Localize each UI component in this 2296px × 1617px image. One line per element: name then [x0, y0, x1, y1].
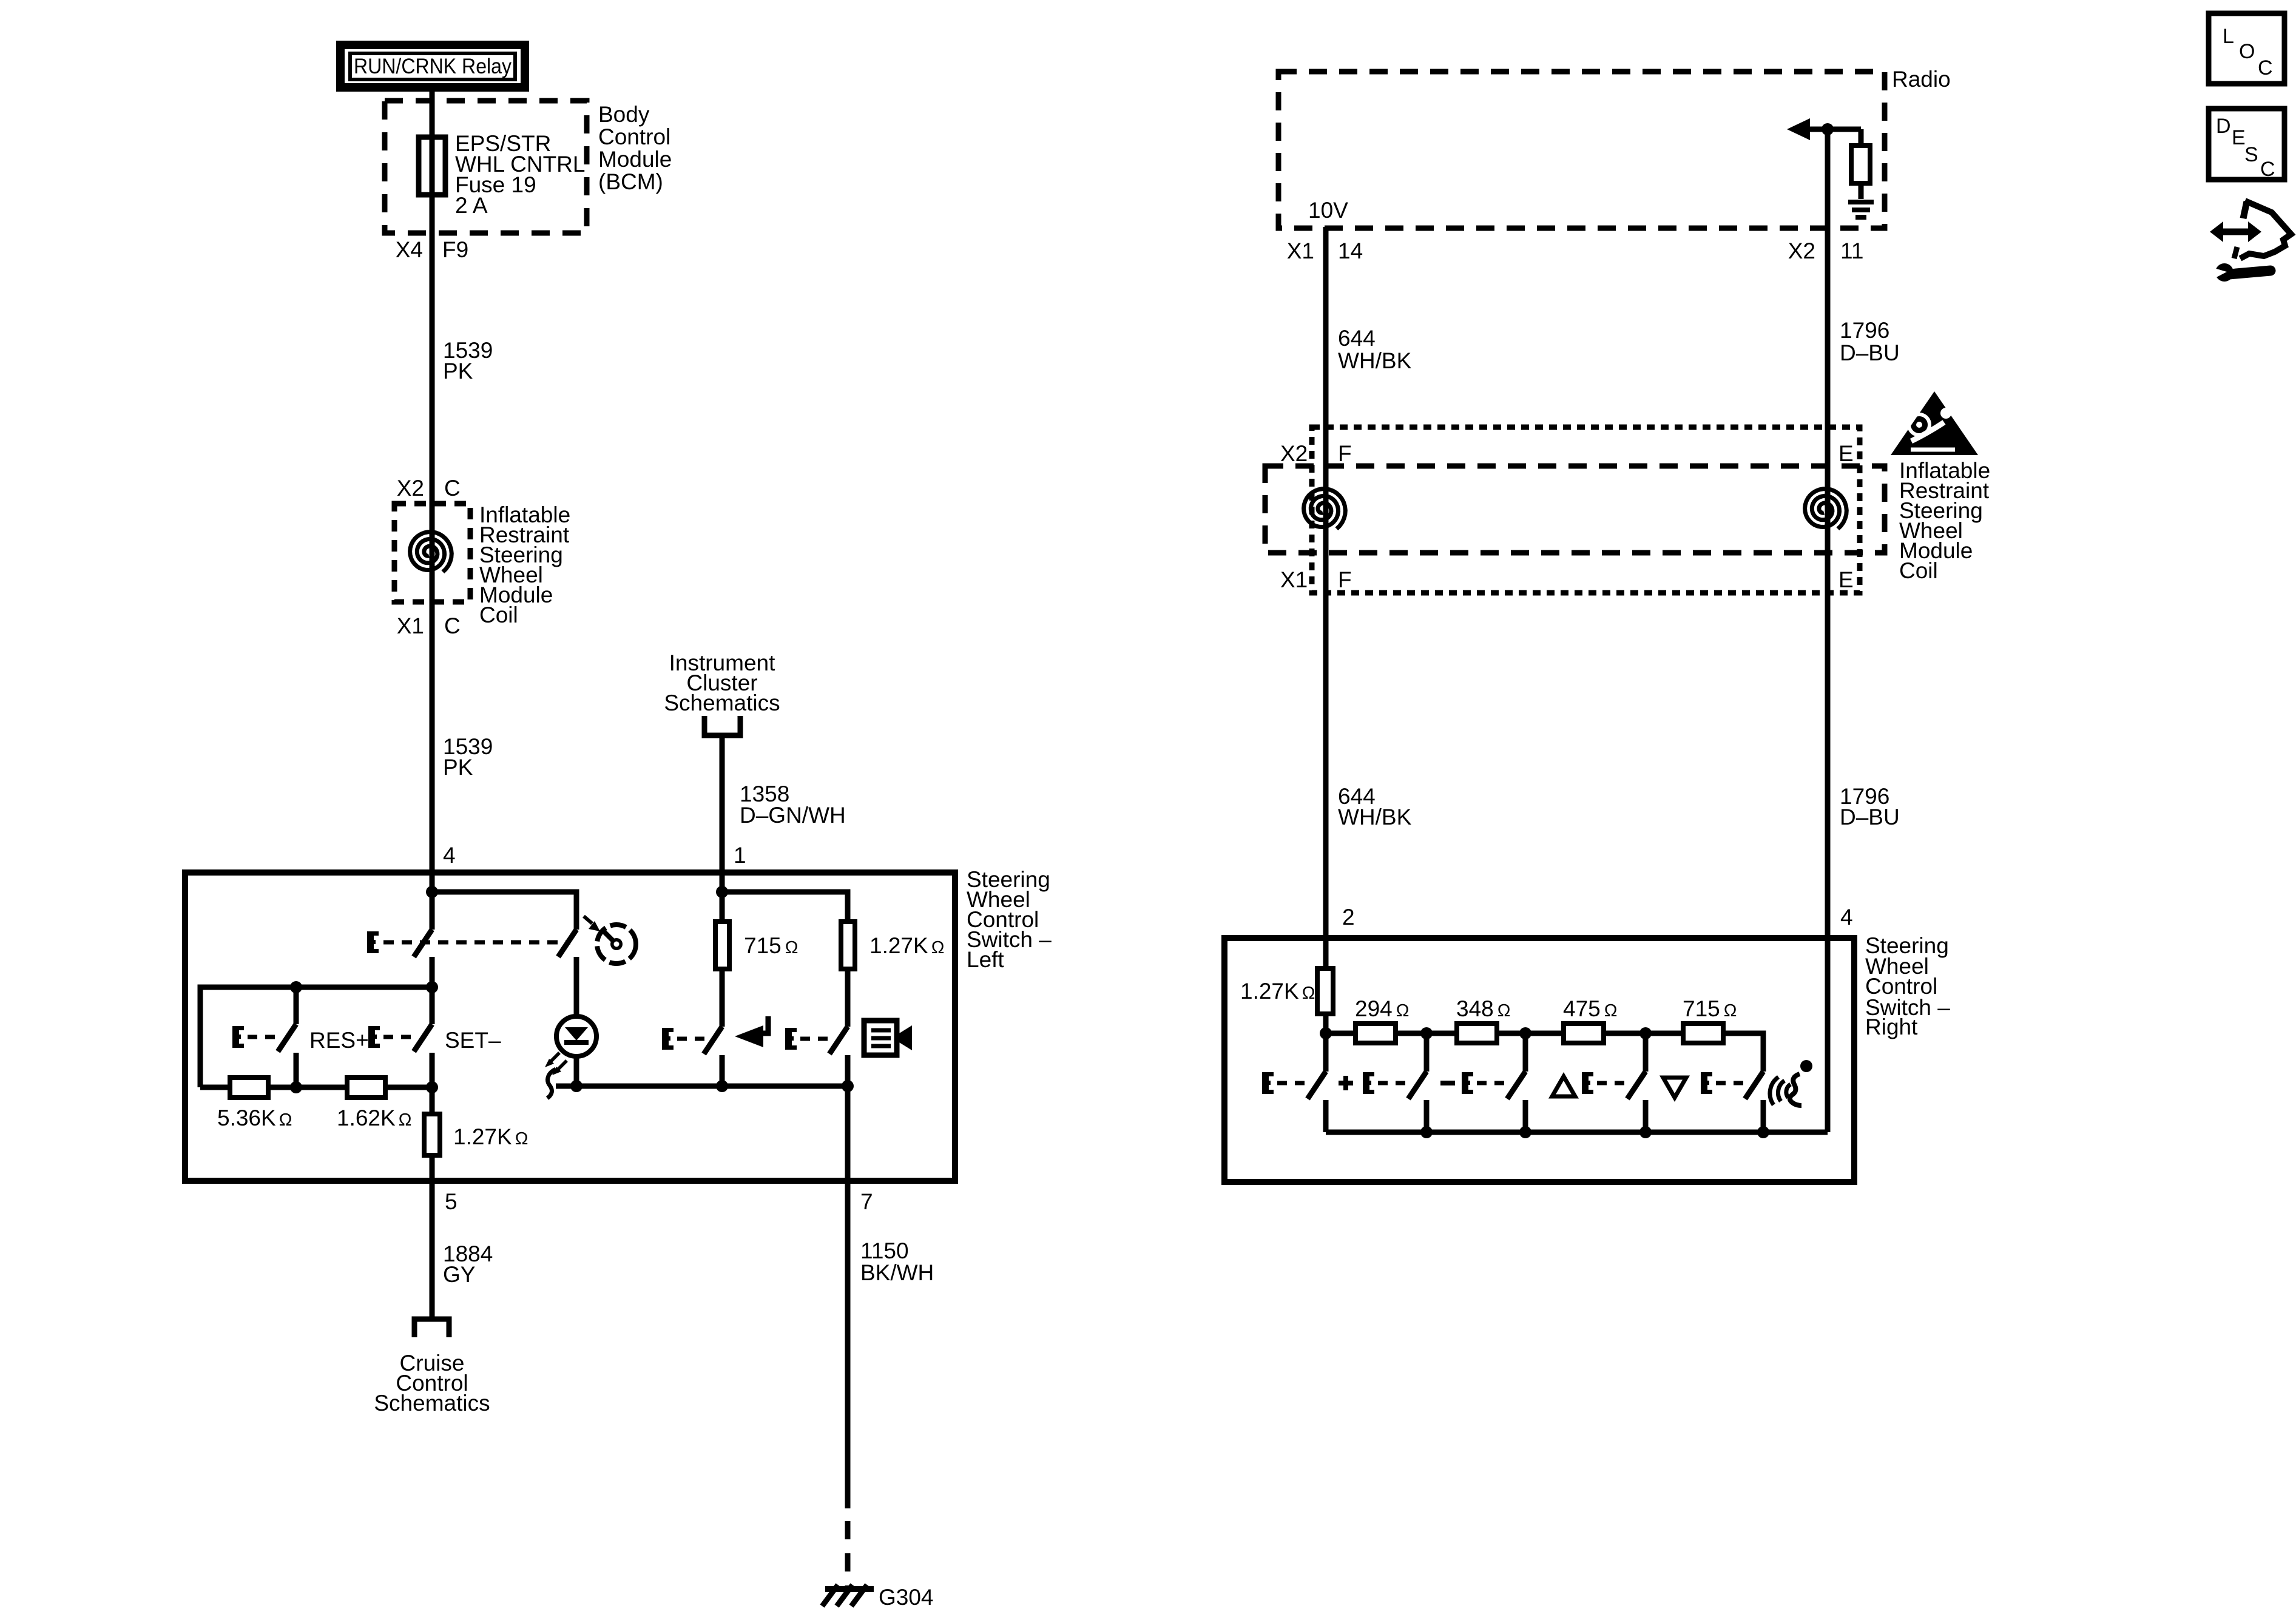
node set junction	[426, 1081, 438, 1093]
actuator E SET-	[368, 1026, 380, 1048]
switch cruise on/off blade 1	[414, 930, 432, 957]
symbol triangle up	[1552, 1076, 1575, 1096]
svg-text:11: 11	[1840, 238, 1863, 263]
relay K1 RUN/CRNK Relay	[340, 45, 525, 87]
svg-text:F9: F9	[442, 237, 468, 262]
node bus j2	[1519, 1126, 1531, 1138]
LED cruise indicator	[545, 1016, 596, 1075]
module coil inner dashed box	[1265, 466, 1885, 553]
wire cruise switch to LED	[574, 957, 579, 1086]
svg-text:RES+: RES+	[309, 1028, 369, 1053]
svg-text:RUN/CRNK Relay: RUN/CRNK Relay	[354, 55, 512, 78]
node bus j4	[1757, 1126, 1769, 1138]
svg-text:Radio: Radio	[1892, 67, 1951, 92]
svg-text:E: E	[2232, 126, 2246, 149]
actuator E seek	[662, 1028, 674, 1050]
svg-text:X1: X1	[1280, 567, 1308, 592]
node pin1 junction	[720, 870, 725, 922]
svg-text:10V: 10V	[1308, 198, 1348, 223]
svg-text:D: D	[2216, 115, 2231, 138]
resistor 715 vertical	[715, 922, 729, 969]
node bus j3	[1639, 1126, 1652, 1138]
icon DESC box	[2209, 109, 2284, 181]
fuse F19 EPS/STR WHL CNTRL	[419, 137, 445, 195]
dashed gang line cruise	[383, 940, 570, 945]
svg-text:F: F	[1338, 567, 1352, 592]
wire relay to fuse	[430, 90, 435, 139]
dashes SET-	[383, 1035, 416, 1039]
switch seek	[704, 969, 722, 1086]
wire 1796 D-BU lower	[1825, 593, 1831, 938]
node chain j2	[1420, 1027, 1433, 1039]
box steering wheel control switch right	[1224, 938, 1854, 1182]
node chain start	[1320, 1027, 1332, 1039]
wire 1358 D-GN/WH	[720, 735, 725, 870]
coil spiral right (right schematic)	[1805, 489, 1847, 529]
wire 1884 GY	[430, 1181, 435, 1318]
actuator E RES+	[232, 1026, 244, 1048]
switch band/source	[829, 969, 848, 1181]
wire top branch to cruise switch	[432, 892, 576, 930]
icon voice recognition	[1770, 1060, 1812, 1106]
svg-text:4: 4	[443, 843, 456, 868]
svg-text:L: L	[2223, 25, 2234, 48]
wire top branch pin1 to 1.27K	[722, 892, 848, 922]
resistor 715 right box	[1646, 1024, 1763, 1072]
svg-text:7: 7	[860, 1189, 873, 1214]
wire through coil	[430, 504, 435, 602]
wire pin4 down to bus	[1825, 938, 1831, 1132]
resistor 1.27K vertical left box	[424, 1087, 440, 1181]
wire 1150 BK/WH	[845, 1181, 851, 1508]
dashes seek	[677, 1037, 710, 1041]
icon LOC box	[2209, 13, 2284, 84]
node band switch bus junction	[842, 1080, 854, 1092]
actuator E band	[785, 1028, 797, 1050]
dashes RES+	[248, 1035, 280, 1039]
icon airbag warning triangle	[1891, 391, 1978, 455]
svg-text:1: 1	[734, 843, 746, 868]
wire through left coil	[1323, 427, 1329, 593]
svg-text:S: S	[2244, 143, 2258, 166]
coil spiral left (right schematic)	[1304, 489, 1346, 529]
off-page bracket cruise control	[414, 1319, 449, 1337]
actuator E seek down	[1582, 1072, 1593, 1094]
symbol minus	[1440, 1081, 1455, 1085]
actuator E vol up	[1262, 1072, 1274, 1094]
svg-text:14: 14	[1338, 238, 1363, 263]
switch SET-	[414, 1024, 432, 1087]
svg-text:X1: X1	[397, 613, 424, 638]
node res junction	[290, 1081, 302, 1093]
svg-text:C: C	[444, 613, 461, 638]
svg-text:O: O	[2239, 40, 2255, 63]
switch RES+	[278, 987, 296, 1087]
icon seek previous track	[735, 1016, 768, 1047]
wire through right coil	[1825, 427, 1831, 593]
wire 1796 D-BU upper	[1825, 129, 1831, 427]
svg-text:C: C	[2260, 158, 2275, 181]
switch voice	[1745, 1072, 1763, 1132]
svg-text:SET–: SET–	[445, 1028, 501, 1053]
svg-text:X1: X1	[1287, 238, 1314, 263]
wire bottom bus right box	[1326, 1130, 1828, 1135]
svg-text:4: 4	[1840, 905, 1853, 930]
svg-text:5: 5	[445, 1189, 458, 1214]
resistor 475	[1525, 1024, 1646, 1043]
signal arrow inside radio	[1787, 118, 1861, 140]
resistor 348	[1427, 1024, 1525, 1043]
resistor 1.27K right box	[1317, 938, 1333, 1033]
dashes vol down	[1378, 1081, 1411, 1085]
svg-text:E: E	[1838, 441, 1854, 466]
node chain j4	[1639, 1027, 1652, 1039]
actuator E cruise	[367, 931, 379, 953]
actuator E seek up	[1462, 1072, 1473, 1094]
dashes voice	[1716, 1081, 1749, 1085]
dashes seek up	[1477, 1081, 1510, 1085]
node pin4 junction	[430, 870, 435, 930]
coil spiral (left schematic)	[410, 532, 452, 572]
actuator E voice	[1701, 1072, 1712, 1094]
node LED anode bus junction	[570, 1080, 582, 1092]
connector box coil module outer (dotted)	[1312, 427, 1860, 593]
symbol triangle down	[1663, 1078, 1686, 1098]
resistor 5.36K	[200, 1078, 296, 1098]
lamp curl	[547, 1069, 556, 1098]
switch seek up	[1507, 1033, 1525, 1132]
node bus j1	[1420, 1126, 1433, 1138]
svg-text:2: 2	[1342, 905, 1355, 930]
ground G304	[822, 1585, 874, 1606]
svg-text:C: C	[444, 476, 461, 501]
module Radio dashed box	[1278, 72, 1885, 228]
node chain j3	[1519, 1027, 1531, 1039]
svg-text:G304: G304	[879, 1585, 934, 1610]
switch volume up	[1308, 1033, 1326, 1132]
svg-text:C: C	[2258, 56, 2273, 79]
ground radio internal	[1848, 202, 1874, 217]
module BCM dashed box	[385, 101, 587, 233]
dashes vol up	[1277, 1081, 1310, 1085]
resistor 294	[1326, 1024, 1427, 1043]
off-page bracket instrument cluster	[704, 716, 740, 735]
wire dashed to ground	[845, 1521, 851, 1589]
actuator E vol down	[1363, 1072, 1374, 1094]
svg-text:X2: X2	[1788, 238, 1815, 263]
switch volume down	[1408, 1033, 1427, 1132]
svg-text:F: F	[1338, 441, 1352, 466]
connector box steering wheel coil (left)	[394, 504, 470, 602]
resistor 1.62K	[296, 1078, 432, 1098]
icon band display speaker	[864, 1021, 912, 1055]
wire 1539 PK upper	[430, 279, 435, 504]
svg-text:X2: X2	[1280, 441, 1308, 466]
resistor radio pull-down	[1851, 129, 1870, 199]
switch seek down	[1627, 1033, 1646, 1132]
icon adjust hand tool	[2210, 201, 2291, 282]
wire 644 WH/BK upper	[1323, 227, 1329, 427]
node seek switch bus junction	[716, 1080, 728, 1092]
svg-text:E: E	[1838, 567, 1854, 592]
icon cruise speed gauge	[584, 916, 636, 964]
symbol plus	[1339, 1076, 1353, 1090]
box steering wheel control switch left	[185, 873, 955, 1181]
resistor 1.27K vertical pin7 branch	[841, 922, 855, 969]
wire left branch	[200, 987, 432, 1087]
wire LED bus	[556, 1084, 848, 1089]
dashes band	[800, 1037, 833, 1041]
switch cruise on/off blade 2	[558, 930, 576, 957]
svg-text:X2: X2	[397, 476, 424, 501]
dashes seek down	[1597, 1081, 1630, 1085]
wire junction at pin4 down to RES/SET row	[430, 957, 435, 1024]
wire 1539 PK lower	[430, 602, 435, 870]
svg-text:X4: X4	[396, 237, 423, 262]
node radio junction	[1822, 123, 1834, 135]
wire fuse to connector X4	[430, 195, 435, 279]
wire 644 WH/BK lower	[1323, 593, 1329, 938]
